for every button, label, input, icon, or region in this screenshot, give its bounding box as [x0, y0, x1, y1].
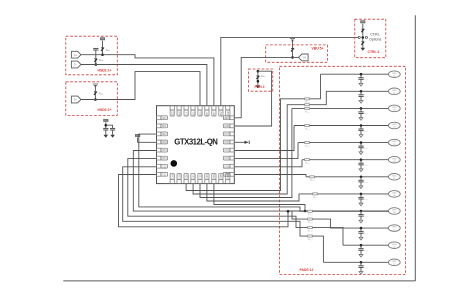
U1 right pin 6 (CH2) [223, 156, 234, 160]
capacitor C13 [358, 232, 363, 234]
wire net row9 feed from U1 bottom pin 7 [214, 184, 305, 211]
svg-text:SDA: SDA [199, 111, 202, 116]
wire C1 to D- net [95, 50, 97, 63]
wire net row12 from U1 left pin 7 [123, 167, 324, 263]
junction on D+ net [101, 53, 104, 56]
wire comp box to U1 right pin 2 [234, 71, 271, 126]
junction decoupling [105, 124, 108, 127]
junction channel 6 [360, 158, 363, 161]
wire net row2 from U1 bottom pin 4 [193, 91, 326, 194]
junction channel 10 [360, 227, 363, 230]
resistor R12 inline row2 [305, 104, 311, 110]
wire J2 to U1 top pin 5 [81, 72, 200, 106]
dashed option box VBUS 2+ [66, 36, 118, 75]
wire to tag [293, 56, 299, 58]
ground arrow CTRL [361, 48, 366, 51]
U1 left pin 8 (C11) [157, 172, 168, 176]
U1 right pin 5 (CH1) [223, 148, 234, 152]
svg-text:Cₓ_ₓₓ: Cₓ_ₓₓ [363, 147, 368, 149]
capacitor C10 [358, 180, 363, 182]
wire C10 to ground [360, 182, 362, 186]
wire channel 6 row [302, 159, 389, 161]
pad connector P9 [388, 208, 400, 215]
capacitor C14 [358, 249, 363, 251]
junction channel 8 [360, 193, 363, 196]
svg-text:CB0: CB0 [186, 173, 188, 178]
capacitor C15 [358, 266, 363, 268]
svg-text:Rₓ_ₓₓ: Rₓ_ₓₓ [305, 146, 310, 148]
wire C9 to ground [360, 165, 362, 169]
capacitor C5 [358, 95, 363, 97]
U1 top pin 2 (GND) [177, 106, 181, 117]
junction channel 11 [360, 244, 363, 247]
svg-text:Cₓ_ₓₓ: Cₓ_ₓₓ [363, 216, 368, 218]
pad connector P5 [388, 139, 400, 146]
wire C12 to ground [360, 216, 362, 220]
svg-text:PAD: PAD [392, 106, 397, 109]
esd diode D3 [94, 92, 97, 95]
wire channel 10 row [331, 227, 389, 229]
U1 bottom pin 3 (CB0) [184, 173, 188, 183]
svg-text:Cₓ_ₓₓ: Cₓ_ₓₓ [363, 199, 368, 201]
U1 bottom pin 8 (CB5) [219, 173, 223, 183]
svg-text:Rₓ_ₓₓ: Rₓ_ₓₓ [308, 231, 313, 233]
wire node to gnd [362, 39, 364, 48]
wire to C3 branch [106, 125, 113, 128]
U1 right pin 2 (GND) [223, 124, 234, 128]
wire channel 12 to cap [360, 262, 362, 265]
svg-text:CTRL 4: CTRL 4 [368, 50, 380, 54]
U1 top pin 9 (GN2) [226, 106, 230, 116]
junction channel 12 [360, 261, 363, 264]
wire through R6 [257, 71, 259, 85]
U1 right pin 3 (OUT) [223, 132, 234, 136]
wire channel 5 row [298, 142, 389, 144]
svg-text:CH6: CH6 [179, 173, 181, 178]
U1 top pin 7 (RST) [212, 106, 216, 116]
capacitor C3 [110, 128, 115, 130]
U1 right pin 1 (VREG) [223, 116, 234, 120]
wire net row8 from U1 bottom pin 6 [207, 184, 299, 201]
svg-text:Rₓₓₓ: Rₓₓₓ [106, 49, 110, 52]
resistor R16 inline row6 [305, 159, 311, 165]
power bar VBUS [100, 38, 104, 40]
svg-text:PAD: PAD [392, 192, 397, 195]
ground arrow C3 [110, 135, 115, 138]
svg-text:PAD: PAD [392, 89, 397, 92]
connector J1 D+ [71, 51, 81, 58]
wire AVDD to U1 pin [138, 137, 157, 142]
wire C14 to ground [360, 250, 362, 254]
page border bottom edge [63, 280, 415, 282]
U1 top pin 4 (SCL) [191, 106, 195, 116]
pad connector P10 [388, 225, 400, 232]
junction comp box top [257, 70, 260, 73]
svg-text:HSD3 2+: HSD3 2+ [98, 108, 112, 112]
ground arrow channel 9 [359, 220, 363, 223]
power bar CTRL pull-up [361, 21, 365, 23]
svg-text:PAD: PAD [392, 226, 397, 229]
wire channel 12 row [323, 261, 388, 263]
ground symbol box2 [93, 84, 98, 87]
wire C13 to ground [360, 233, 362, 237]
junction on J2 net [94, 98, 97, 101]
svg-text:D+: D+ [74, 98, 78, 102]
junction channel 4 [360, 124, 363, 127]
svg-text:D-: D- [74, 63, 77, 67]
page border right edge [414, 15, 416, 281]
svg-text:C10: C10 [162, 166, 167, 168]
wire net row11 from U1 left pin 6 [128, 159, 343, 246]
svg-text:CB4: CB4 [214, 173, 216, 178]
wire channel 7 to cap [360, 177, 362, 180]
esd diode D2 [101, 48, 104, 51]
svg-text:SCL: SCL [193, 111, 195, 116]
svg-text:Cₓ_ₓₓ: Cₓ_ₓₓ [363, 79, 368, 81]
wire net row4 from U1 right pin 5 [234, 126, 294, 151]
svg-text:C11: C11 [162, 174, 167, 176]
wire C6 to ground [360, 114, 362, 118]
svg-text:D+: D+ [74, 53, 78, 57]
svg-text:Rₓ_ₓₓ: Rₓ_ₓₓ [305, 111, 310, 113]
wire net row9 from U1 left pin 3 [139, 134, 389, 211]
jumper pad circles [358, 36, 360, 38]
wire stub arrow [234, 141, 248, 143]
U1 top pin 5 (SDA) [198, 106, 202, 116]
junction tag net [291, 56, 294, 59]
U1 top pin 3 (CS) [184, 106, 188, 116]
ground arrow channel 7 [359, 186, 363, 189]
wire VBUS to D+ net [102, 41, 104, 54]
junction channel 1 [360, 73, 363, 76]
svg-text:VDD: VDD [173, 111, 175, 116]
svg-text:GND: GND [179, 111, 181, 116]
wire C2 to gnd [105, 130, 107, 135]
ground arrow channel 6 [359, 169, 363, 172]
dashed box CTRL options [355, 19, 386, 58]
svg-text:Rₓ_ₓₓ: Rₓ_ₓₓ [305, 128, 310, 130]
svg-text:PAD: PAD [392, 72, 397, 75]
esd diode D4 [291, 48, 294, 51]
capacitor C1 plates [93, 48, 98, 50]
U1 bottom pin 4 (CB1) [191, 173, 195, 183]
svg-text:PAD: PAD [392, 209, 397, 212]
pad connector P11 [388, 242, 400, 249]
svg-text:CH4: CH4 [224, 174, 229, 176]
svg-text:Rₓ_ₓₓ: Rₓ_ₓₓ [308, 222, 313, 224]
svg-text:OUT: OUT [224, 134, 229, 136]
svg-text:GTX312L-QN: GTX312L-QN [174, 137, 218, 146]
wire VDD stem [105, 122, 107, 128]
junction channel 7 [360, 176, 363, 179]
wire gnd to tag net [292, 40, 294, 57]
wire net row6 from U1 right pin 7 [234, 160, 302, 167]
U1 bottom pin 7 (CB4) [212, 173, 216, 183]
pad connector P8 [388, 191, 400, 198]
wire channel 10 to cap [360, 228, 362, 231]
ground arrow channel 3 [359, 118, 363, 121]
resistor R13 inline row3 [305, 107, 311, 113]
ground arrow channel 1 [359, 83, 363, 86]
ground arrow channel 12 [359, 272, 363, 275]
svg-text:INT: INT [207, 111, 209, 115]
junction row9 aux tee [287, 210, 290, 213]
svg-text:HSD2 2+: HSD2 2+ [98, 69, 112, 73]
capacitor C9 [358, 163, 363, 165]
wire channel 8 row [299, 193, 389, 195]
wire channel 7 row [306, 176, 389, 178]
wire gnd to J2 net [94, 85, 96, 98]
dashed box USB 5V tag [266, 45, 328, 62]
capacitor C4 [358, 78, 363, 80]
wire C11 to ground [360, 199, 362, 203]
wire pullup to node [362, 24, 364, 36]
pad connector P12 [388, 259, 400, 266]
resistor R19 inline row9 [308, 210, 314, 216]
U1 left pin 1 (SD0) [157, 116, 168, 120]
svg-text:Rₓₓₓ: Rₓₓₓ [99, 59, 103, 62]
ground arrow comp box [256, 85, 261, 88]
pad connector P7 [388, 174, 400, 181]
svg-text:Cₓ_ₓₓ: Cₓ_ₓₓ [363, 233, 368, 235]
resistor R20 inline row10 [308, 218, 314, 224]
resistor R22 inline row12 [308, 235, 314, 241]
svg-text:Rₓ_ₓₓ: Rₓ_ₓₓ [308, 239, 313, 241]
capacitor C11 [358, 197, 363, 199]
U1 bottom pin 2 (CH6) [177, 173, 181, 183]
junction channel 3 [360, 107, 363, 110]
dashed box sensor channels [280, 66, 406, 274]
resistor R5 [361, 42, 364, 45]
svg-text:CB2: CB2 [200, 173, 202, 178]
svg-text:Cₓ_ₓₓ: Cₓ_ₓₓ [363, 113, 368, 115]
capacitor C6 [358, 112, 363, 114]
wire net row3 from U1 bottom pin 5 [200, 108, 292, 197]
svg-text:PAD: PAD [392, 174, 397, 177]
svg-text:VREG: VREG [223, 118, 230, 120]
junction on D- net [95, 63, 98, 66]
wire C5 to ground [360, 96, 362, 100]
wire net row1 from U1 bottom pin 3 [186, 74, 320, 190]
svg-text:CS: CS [186, 112, 188, 116]
svg-text:CB1: CB1 [193, 173, 195, 178]
wire U1 top pin 8 to CTRL options [221, 37, 359, 105]
ground symbol top tag box [290, 39, 295, 42]
svg-text:PAD: PAD [392, 243, 397, 246]
svg-text:VD2: VD2 [221, 111, 223, 116]
U1 right pin 7 (CH3) [223, 164, 234, 168]
resistor R14 inline row4 [305, 125, 311, 131]
svg-text:SD1: SD1 [162, 126, 167, 128]
svg-text:CB3: CB3 [207, 173, 209, 178]
svg-text:GND: GND [224, 126, 229, 128]
wire channel 11 to cap [360, 245, 362, 248]
ground arrow channel 10 [359, 237, 363, 240]
U1 GTX312L-QN chip body [157, 106, 235, 184]
svg-text:PDN 2: PDN 2 [255, 85, 265, 89]
svg-text:CH9: CH9 [162, 158, 167, 160]
power bar AVDD [135, 134, 139, 136]
wire net row10 from U1 left pin 5 [133, 151, 330, 229]
wire C7 to ground [360, 131, 362, 135]
U1 left pin 4 (GND) [157, 140, 168, 144]
connector tag VBUS5 [299, 54, 309, 61]
svg-text:PAD: PAD [392, 140, 397, 143]
wire C15 to ground [360, 267, 362, 271]
svg-text:GND: GND [162, 142, 167, 144]
dashed box pulldown option [248, 69, 272, 91]
resistor R15 inline row5 [305, 142, 311, 148]
svg-text:CH1: CH1 [224, 150, 229, 152]
wire channel 9 row [288, 210, 389, 212]
svg-text:CH3: CH3 [224, 166, 229, 168]
pad connector P6 [388, 156, 400, 163]
ground arrow channel 5 [359, 152, 363, 155]
wire channel 2 to cap [360, 91, 362, 94]
pad connector P2 [388, 88, 400, 95]
connector J1 D- [71, 61, 81, 68]
svg-text:VBU 5+: VBU 5+ [312, 46, 324, 50]
resistor R21 inline row11 [308, 227, 314, 233]
pad connector P4 [388, 122, 400, 129]
U1 right pin 4 (CH0) [223, 140, 234, 144]
capacitor C7 [358, 129, 363, 131]
svg-text:Rₓ_ₓₓ: Rₓ_ₓₓ [308, 214, 313, 216]
svg-text:CH0: CH0 [224, 142, 229, 144]
wire channel 5 to cap [360, 143, 362, 146]
svg-text:SD2: SD2 [162, 134, 167, 136]
svg-text:Cₓ_ₓₓ: Cₓ_ₓₓ [363, 250, 368, 252]
svg-text:5V: 5V [303, 56, 306, 60]
svg-text:Cₓ_ₓₓ: Cₓ_ₓₓ [363, 182, 368, 184]
capacitor C12 [358, 215, 363, 217]
svg-text:Rₓ_ₓₓ: Rₓ_ₓₓ [305, 163, 310, 165]
svg-text:RST: RST [214, 111, 216, 116]
wire channel 1 row [321, 73, 389, 75]
pad connector P3 [388, 105, 400, 112]
U1 top pin 8 (VD2) [219, 106, 223, 116]
wire channel 4 to cap [360, 126, 362, 129]
resistor R17 inline row7 [310, 176, 316, 182]
U1 bottom pin 5 (CB2) [198, 173, 202, 183]
junction channel 9 [360, 210, 363, 213]
junction channel 2 [360, 90, 363, 93]
wire J1 D+ to U1 top pin 7 [81, 55, 214, 106]
U1 bottom pin 1 (CH5) [170, 173, 174, 183]
U1 left pin 5 (CH8) [157, 148, 168, 152]
wire C4 to ground [360, 79, 362, 83]
wire channel 11 row [343, 244, 389, 246]
wire net row9 aux from U1 left pin 8 [119, 175, 289, 227]
ground arrow channel 11 [359, 254, 363, 257]
svg-text:Rₓ_ₓₓ: Rₓ_ₓₓ [310, 180, 315, 182]
svg-text:Rₓₓₓ: Rₓₓₓ [261, 75, 265, 78]
junction CTRL node [362, 36, 365, 39]
wire C3 to gnd [112, 130, 114, 135]
wire channel 6 to cap [360, 160, 362, 163]
U1 left pin 2 (SD1) [157, 124, 168, 128]
wire J1 D- to U1 top pin 6 [81, 65, 207, 106]
resistor R18 inline row8 [313, 193, 319, 199]
svg-text:CTRL: CTRL [370, 32, 379, 36]
U1 top pin 6 (INT) [205, 106, 209, 116]
ground arrow channel 8 [359, 203, 363, 206]
U1 bottom pin 6 (CB3) [205, 173, 209, 183]
U1 top pin 1 (VDD) [170, 106, 174, 116]
junction row9 tee [304, 210, 307, 213]
svg-text:Cₓ_ₓₓ: Cₓ_ₓₓ [363, 96, 368, 98]
capacitor C2 [103, 128, 108, 130]
resistor R6 [257, 76, 260, 79]
svg-text:Rₓ_ₓₓ: Rₓ_ₓₓ [313, 197, 318, 199]
wire C8 to ground [360, 148, 362, 152]
svg-text:Cₓ_ₓₓ: Cₓ_ₓₓ [363, 165, 368, 167]
U1 right pin 8 (CH4) [223, 172, 234, 176]
wire channel 8 to cap [360, 194, 362, 197]
wire channel 2 row [326, 90, 388, 92]
svg-text:PADS 12: PADS 12 [300, 268, 314, 272]
svg-text:CH5: CH5 [173, 173, 175, 178]
wire channel 4 row [294, 125, 389, 127]
svg-text:PAD: PAD [392, 157, 397, 160]
pad connector P1 [388, 71, 400, 78]
wire channel 1 to cap [360, 74, 362, 77]
U1 left pin 3 (SD2) [157, 132, 168, 136]
wire net row7 from U1 right pin 8 [234, 175, 306, 177]
svg-text:SD0: SD0 [162, 118, 167, 120]
U1 bottom pin 9 (CB6) [226, 173, 230, 183]
svg-text:Cₓ_ₓₓ: Cₓ_ₓₓ [363, 130, 368, 132]
U1 left pin 6 (CH9) [157, 156, 168, 160]
wire channel 9 to cap [360, 211, 362, 214]
wire net row5 from U1 right pin 6 [234, 143, 298, 159]
ground arrow channel 4 [359, 135, 363, 138]
svg-text:CH8: CH8 [162, 150, 167, 152]
connector J2 D+ [71, 96, 81, 103]
wire tag net to U1 right pin 1 [234, 57, 292, 117]
U1 left pin 7 (C10) [157, 164, 168, 168]
U1 pin 1 dot [171, 160, 178, 167]
power bar VDD [104, 119, 108, 121]
svg-text:CH2: CH2 [224, 158, 229, 160]
wire channel 3 row [292, 107, 389, 109]
wire channel 3 to cap [360, 108, 362, 111]
capacitor C8 [358, 146, 363, 148]
resistor R4 [361, 29, 364, 32]
svg-text:Options: Options [369, 38, 382, 42]
svg-text:Cₓ_ₓₓ: Cₓ_ₓₓ [363, 267, 368, 269]
junction channel 5 [360, 141, 363, 144]
svg-text:PAD: PAD [392, 260, 397, 263]
svg-text:PAD: PAD [392, 123, 397, 126]
ground arrow C2 [104, 135, 109, 138]
ground arrow channel 2 [359, 101, 363, 104]
dashed option box VBUS 3+ [66, 82, 118, 116]
svg-text:GN2: GN2 [228, 111, 230, 116]
resistor R11 inline row1 [305, 98, 311, 104]
junction comp box bottom [257, 80, 260, 83]
esd diode D1 [94, 59, 97, 62]
svg-text:Rₓₓₓ: Rₓₓₓ [99, 93, 103, 96]
capacitor C1 [0, 0, 1, 1]
svg-text:CB5: CB5 [221, 173, 223, 178]
